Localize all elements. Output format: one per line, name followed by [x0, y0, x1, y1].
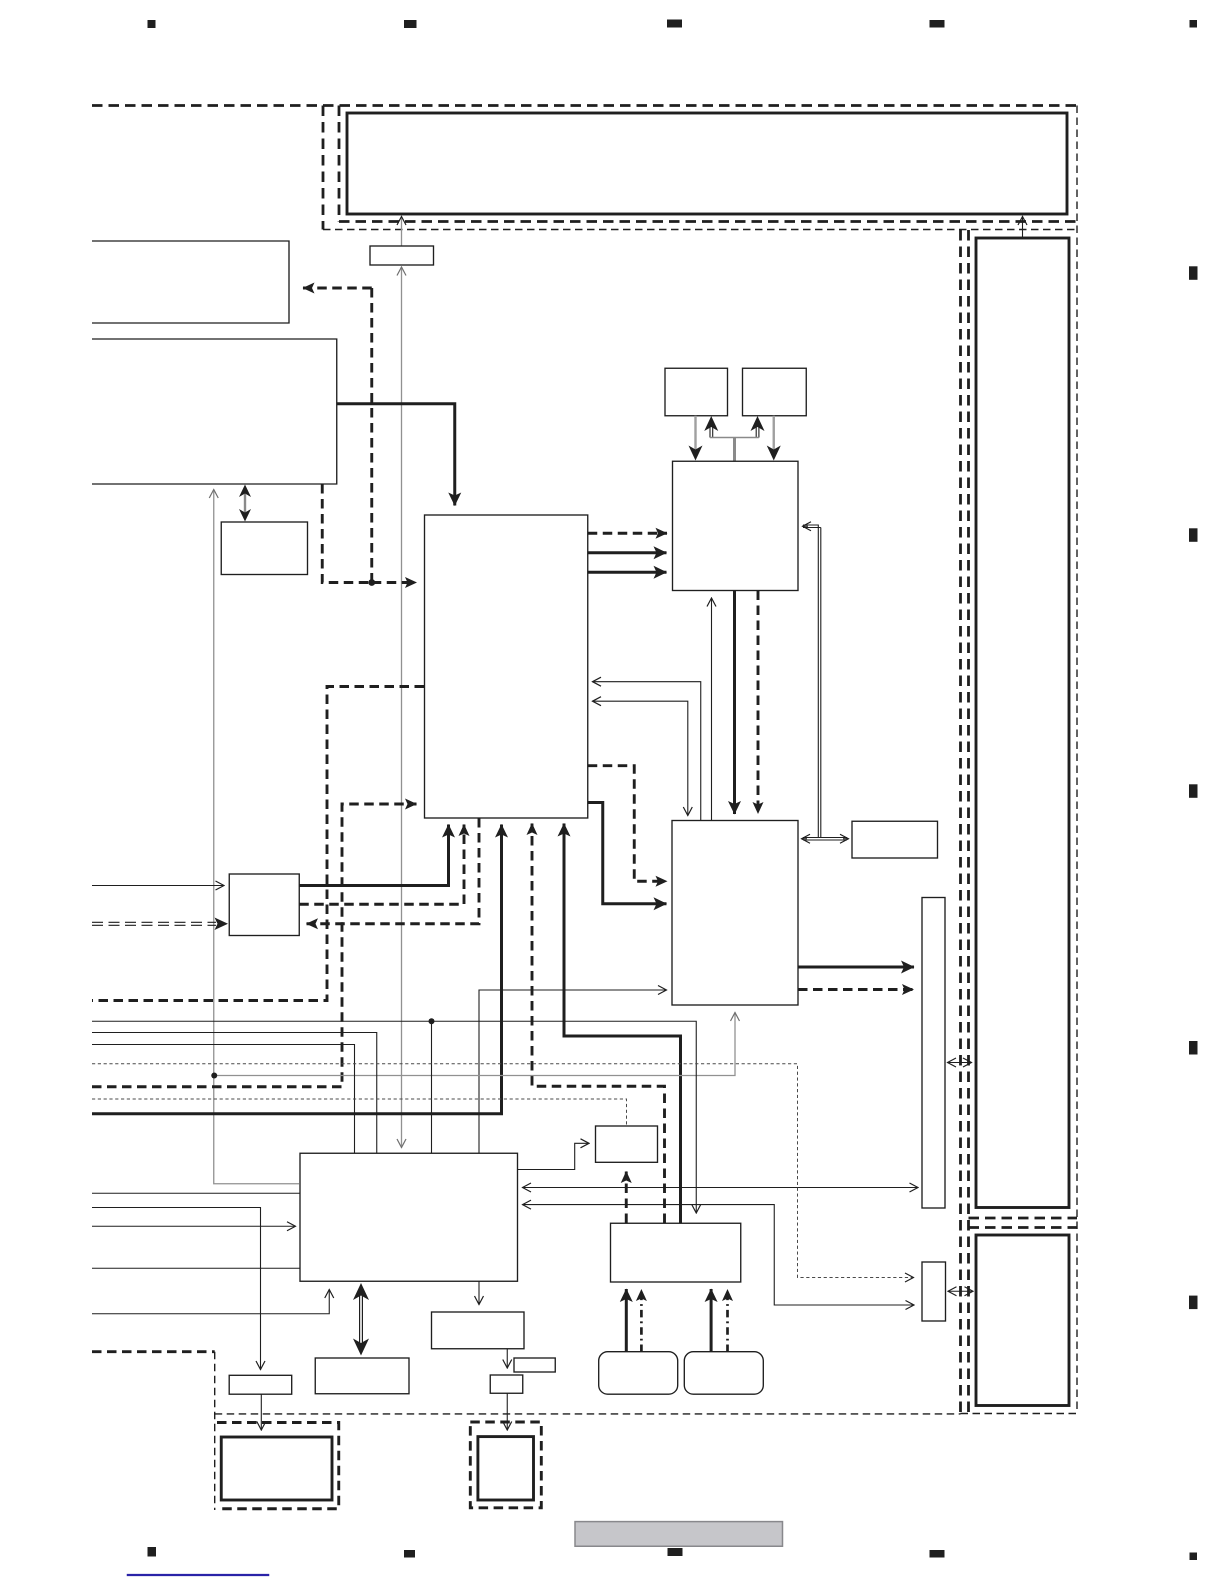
junction dot dashed net [368, 579, 375, 586]
double wire elbow into right block right edge [803, 525, 821, 838]
registration mark right 2 [1189, 528, 1198, 542]
junction dot line network [429, 1018, 435, 1024]
thick arrow key B to panel bottom [710, 1289, 713, 1352]
arrow up into block A [704, 416, 718, 438]
long thin wire from oscillator down to CPU [401, 267, 403, 1148]
right block upper [673, 461, 799, 590]
thin wire arrow into interface block [92, 885, 224, 887]
dashed wire interface right to central bottom arrow [299, 825, 464, 905]
thick wire interface block to central block bottom [299, 825, 448, 886]
thin wire 3 to CPU top [92, 1045, 355, 1154]
display block double border [221, 1437, 332, 1500]
bus narrow block [922, 898, 945, 1209]
tall right block 2 [976, 1235, 1069, 1406]
thick arrow lower right block to bus block [798, 966, 914, 969]
dashed wire central-left elbow to left edge [92, 687, 424, 1001]
dotted wire to connector block [92, 1064, 914, 1278]
wire from oscillator box up to banner [401, 217, 403, 247]
right column outer dashed vertical [959, 230, 962, 1414]
thin wire 2 to CPU top [92, 1033, 377, 1154]
block left of CPU bottom 2 [315, 1358, 409, 1394]
rounded key block A [599, 1352, 678, 1395]
dashed border vertical at left bottom [214, 1352, 216, 1510]
dashed wire vertical from arrow corner [370, 288, 373, 583]
thin wire into CPU left 1 [92, 1192, 300, 1194]
registration mark bottom 3 [668, 1548, 683, 1556]
small block above panel [596, 1126, 658, 1162]
registration mark right 5 [1189, 1296, 1198, 1310]
dashed bottom border right column [961, 1413, 1078, 1415]
rounded key block B [684, 1352, 763, 1395]
thin arrow chain block2 to lcd block [506, 1393, 508, 1430]
small block above display [229, 1375, 292, 1394]
panel block [611, 1223, 741, 1282]
thin arrow chain block1 to chain block2 [506, 1349, 508, 1368]
connector block [922, 1262, 946, 1321]
thick bus arrow central to right block 2 [588, 571, 667, 574]
CPU block [300, 1153, 518, 1281]
gray arrow A down to right block [689, 416, 703, 461]
thin wire central right to lower block top arrow [593, 701, 688, 815]
thick arrow key A to panel bottom [625, 1289, 628, 1352]
dashed wire right block down to lower right block [757, 591, 760, 814]
dashed wire arrow into central block left [372, 581, 417, 584]
thick wire central bottom to panel block top [564, 824, 681, 1224]
dashed surround display block [217, 1423, 339, 1509]
footer blue rule [127, 1574, 270, 1576]
thick wire from left edge up into central bottom [92, 825, 502, 1114]
registration mark top 4 [930, 20, 945, 28]
registration mark bottom 5 [1190, 1553, 1198, 1561]
chain side block [514, 1358, 555, 1372]
thin wire 1 to panel block arrow [92, 1021, 696, 1213]
dashed enclosure inner vertical left inner [338, 106, 341, 222]
thin wire junction down to CPU top [431, 1021, 433, 1153]
dashed wire from block2 bottom down [322, 484, 372, 583]
thick double arrow CPU to block below [353, 1283, 369, 1356]
thin arrow CPU bottom to chain block [478, 1281, 480, 1304]
registration mark bottom 1 [148, 1547, 157, 1557]
dashed bottom border [215, 1413, 961, 1415]
double wire bidirectional between lower block and side block [802, 838, 849, 841]
central block [425, 515, 588, 818]
dashed wire arrow into block 1 [303, 287, 372, 290]
lcd block double border [478, 1437, 534, 1500]
tall right block 1 [976, 238, 1069, 1208]
bidirectional thin arrow bus block to border [948, 1062, 972, 1064]
dashed bottom border left segment [92, 1350, 215, 1353]
dashed surround lcd block [470, 1422, 541, 1508]
gray arrow B down to right block [767, 416, 781, 461]
dashed wire arrow into central block left lower [92, 804, 417, 1087]
lower right block [672, 821, 798, 1006]
dashed enclosure right border [1076, 106, 1078, 1414]
thin wire arrow into CPU left [92, 1225, 296, 1227]
dashed separator right column 2 [969, 1226, 1078, 1229]
bidirectional thin wire CPU to bus block [523, 1187, 919, 1189]
small block top A [665, 368, 728, 416]
dashed wire central bottom to interface block arrow [307, 818, 480, 924]
block upper-left 2 [92, 339, 337, 484]
oscillator box [370, 246, 434, 265]
registration mark bottom 4 [930, 1550, 945, 1558]
registration mark right 1 [1189, 266, 1198, 280]
chain block 2 [490, 1375, 523, 1393]
registration mark top 2 [404, 20, 417, 28]
banner block [347, 113, 1067, 214]
gray elbow joining up arrows [710, 437, 759, 439]
dashdot arrow key B to panel bottom [726, 1290, 729, 1353]
thin wire network line into lower right block [479, 990, 667, 1153]
small block top B [743, 368, 807, 416]
registration mark bottom 2 [404, 1550, 415, 1558]
right column inner dashed vertical [967, 230, 970, 1414]
registration mark top 5 [1190, 20, 1198, 28]
dashed separator right column 1 [969, 1217, 1078, 1220]
dashed banner bottom inner [339, 220, 1077, 223]
thin wire lower block top to central right arrow [593, 682, 701, 821]
side small block [852, 821, 938, 858]
dashed banner bottom outer [323, 229, 1077, 231]
thin arrow small block to display block [260, 1394, 262, 1430]
wire from right tall block up to banner [1022, 217, 1024, 239]
double arrow block2 to small block [239, 485, 251, 522]
bidirectional arrow connector to tall block 2 [948, 1290, 973, 1292]
registration mark top 1 [148, 20, 156, 28]
dashdot arrow key A to panel bottom [640, 1290, 643, 1353]
arrow up into block B [751, 416, 765, 438]
small block below block2 [221, 522, 307, 575]
thick wire central right to lower right block [588, 803, 667, 904]
long gray wire block2 bottom to CPU left [214, 490, 299, 1184]
thin wire up into CPU bottom [92, 1290, 329, 1314]
thin wire into CPU left 2 [92, 1267, 300, 1269]
dashed bus arrow central to right block [588, 532, 667, 535]
thin wire lower block to right block bottom arrow [711, 598, 713, 821]
dotted wire to small block top [92, 1099, 627, 1126]
thick wire right block down to lower right block [733, 591, 736, 815]
thick bus arrow central to right block 1 [588, 551, 667, 554]
registration mark right 4 [1189, 1041, 1198, 1055]
twin dashed wire arrow into interface block [92, 918, 228, 931]
dashed wire central bottom to panel block top [532, 824, 665, 1224]
registration mark top 3 [667, 20, 682, 28]
zig wire CPU right to small block [518, 1143, 590, 1169]
interface small block [229, 874, 299, 936]
block upper-left 1 [92, 241, 289, 323]
dashed wire central right to lower right block [588, 766, 667, 882]
dashed enclosure top border [92, 104, 1077, 107]
junction dot gray wire [211, 1073, 217, 1079]
dashed arrow panel top up into small block [625, 1172, 628, 1224]
thin wire CPU right to connector block [523, 1205, 915, 1305]
chain block 1 [432, 1312, 525, 1349]
thick wire block2 to central block top [337, 404, 455, 506]
gray wire from junction up into lower right block bottom [214, 1013, 735, 1076]
dashed enclosure inner vertical left outer [322, 106, 325, 230]
footer gray box [575, 1522, 783, 1547]
dashed arrow lower right block to bus block [798, 988, 914, 991]
gray stem down to right block top [733, 438, 736, 461]
thin wire left to bottom small block arrow [92, 1208, 261, 1370]
registration mark right 3 [1189, 784, 1198, 798]
